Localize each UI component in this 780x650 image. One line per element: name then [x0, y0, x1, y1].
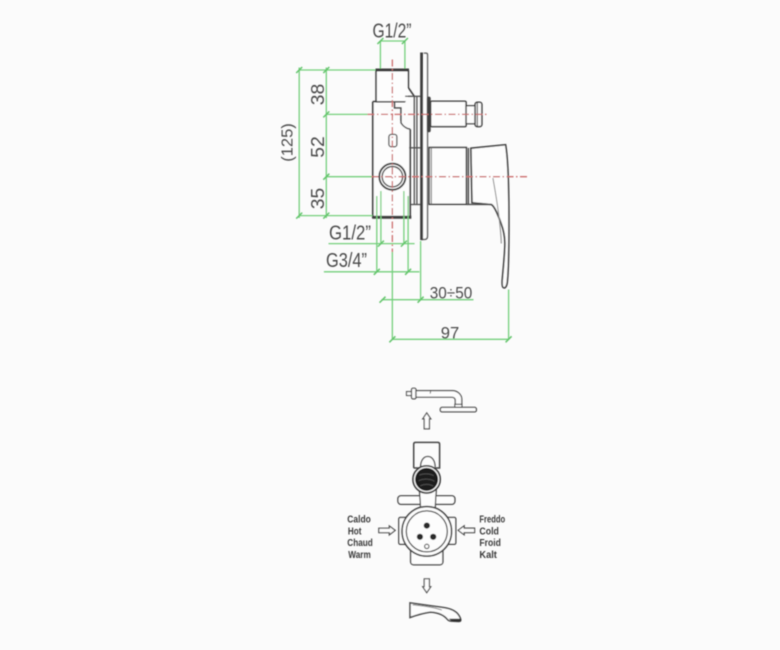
tub spout icon — [410, 603, 461, 622]
leader line G1/2 bottom — [329, 243, 415, 245]
right side tab — [446, 517, 456, 544]
handle tip extension — [508, 290, 510, 340]
knob texture — [419, 474, 435, 486]
svg-text:Froid: Froid — [479, 537, 501, 549]
svg-text:Kalt: Kalt — [479, 549, 497, 561]
svg-text:30÷50: 30÷50 — [430, 284, 473, 303]
up arrow — [423, 413, 431, 429]
stub top thick edge — [376, 69, 410, 72]
port dot lower-right — [430, 534, 436, 540]
svg-text:Freddo: Freddo — [479, 514, 505, 526]
handle hub edge — [467, 148, 469, 205]
handle bottom line — [466, 203, 491, 205]
valve front: top housing — [414, 442, 440, 468]
body main rectangle — [373, 102, 410, 218]
extension lines outlet G3/4 — [376, 196, 378, 272]
wings bar — [398, 496, 455, 505]
handle inner highlight curve — [493, 178, 501, 244]
centerline extension down — [391, 252, 393, 339]
svg-text:(125): (125) — [280, 123, 297, 162]
shower arm icon — [407, 388, 477, 412]
dome arc — [421, 457, 436, 468]
red centerline vertical (valve axis) — [368, 60, 529, 253]
svg-text:G1/2”: G1/2” — [373, 21, 412, 43]
svg-text:35: 35 — [308, 188, 328, 210]
shower head bar — [440, 407, 476, 412]
hot labels — [347, 514, 373, 561]
svg-text:52: 52 — [308, 136, 328, 158]
wall plate extension down — [420, 241, 422, 300]
top inlet stub G1/2 — [376, 70, 414, 102]
svg-text:97: 97 — [441, 324, 460, 343]
port dot lower-left — [417, 534, 423, 540]
svg-text:Warm: Warm — [348, 549, 371, 561]
extension lines bottom outlet G1/2 — [380, 191, 382, 244]
arm tube and bend — [416, 391, 462, 405]
tube seam — [429, 391, 432, 394]
svg-text:Chaud: Chaud — [347, 537, 373, 549]
spout mouth dark — [449, 619, 461, 622]
arm nut — [412, 388, 417, 399]
svg-text:Hot: Hot — [348, 525, 362, 537]
adjustable sleeve between body and wall plate — [405, 96, 420, 204]
valve inner circle — [406, 511, 447, 552]
green dimension drawing — [299, 41, 508, 339]
port dot top — [424, 523, 430, 529]
svg-text:Cold: Cold — [479, 525, 499, 537]
right arrow (cold inlet) — [458, 526, 475, 535]
extension line overall left — [298, 68, 300, 219]
extension line top of body — [299, 69, 375, 71]
screw hole — [425, 544, 429, 548]
extension line outlet axis — [326, 176, 371, 178]
neck under knob — [419, 490, 436, 509]
svg-text:G1/2”: G1/2” — [329, 223, 371, 245]
left side tab — [399, 517, 408, 544]
spout inner line — [413, 605, 442, 610]
bottom housing — [411, 549, 443, 565]
97 dimension line — [392, 338, 508, 340]
red centerline outlet axis — [372, 176, 529, 178]
threaded tip — [407, 392, 412, 396]
flange nut behind shower pipe — [427, 97, 431, 133]
green tick marks — [296, 38, 511, 342]
outlet boss inner circle — [382, 167, 402, 187]
shower outlet pipe — [431, 101, 482, 126]
extension line bottom of body — [299, 215, 372, 217]
red centerline shower pipe axis — [368, 113, 490, 115]
head connector — [455, 404, 462, 407]
handle base — [429, 148, 466, 205]
valve main outer circle — [402, 507, 452, 557]
stub fill — [377, 71, 408, 102]
G1/2 top bracket — [380, 40, 405, 42]
svg-text:Caldo: Caldo — [347, 514, 371, 526]
small window detail on body — [389, 134, 397, 146]
outlet boss outer circle — [379, 164, 405, 190]
mixer body block — [372, 70, 414, 217]
diverter knob outer ring — [413, 466, 440, 493]
internal cartridge step — [395, 102, 411, 130]
body top edge — [373, 101, 405, 103]
wall plate (escutcheon side view) — [421, 53, 428, 239]
extension line shower axis — [326, 113, 367, 115]
dimension texts — [280, 21, 473, 343]
svg-text:38: 38 — [308, 84, 328, 106]
left arrow (hot inlet) — [379, 526, 395, 535]
30-50 dimension line — [382, 299, 474, 301]
leader line G3/4 — [324, 271, 420, 273]
body bottom thick edge — [372, 216, 411, 219]
cold labels — [479, 514, 505, 561]
dimension line 38/52/35 — [325, 68, 327, 219]
handle lever blade — [471, 145, 509, 288]
svg-text:G3/4”: G3/4” — [326, 250, 367, 272]
diverter knob dark disc — [415, 468, 438, 491]
down arrow — [423, 579, 431, 593]
